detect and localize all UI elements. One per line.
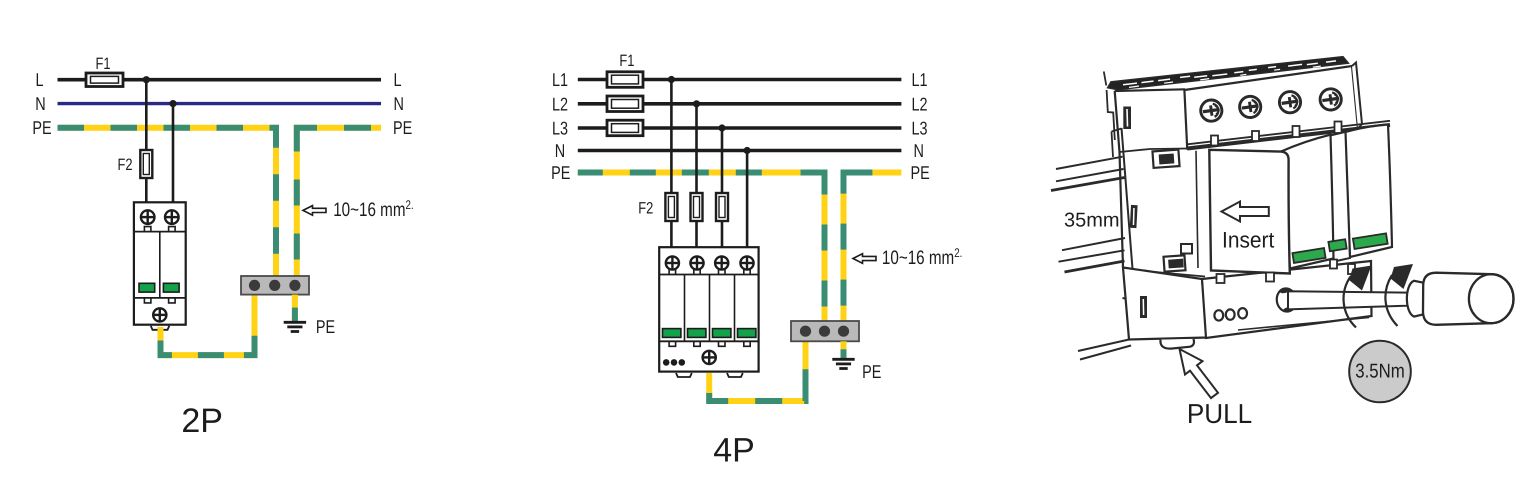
module bottom tab under C (1348, 264, 1355, 274)
DIN rail bottom flange lines (1059, 238, 1126, 272)
module A (1281, 135, 1334, 269)
junction dot on L (143, 76, 150, 83)
SPD 4P terminal screw 1 (666, 256, 679, 269)
svg-text:L2: L2 (912, 93, 928, 114)
terminal screw 1 (isometric) (1199, 99, 1223, 123)
junction dot on L2 (4P) (693, 100, 700, 107)
fuse F1 (2P) (86, 73, 123, 87)
SPD 4P terminal screw 4 (740, 256, 753, 269)
slot A (left face) (1152, 150, 1179, 168)
svg-text:F2: F2 (117, 156, 132, 174)
junction dot on N (4P) (744, 147, 751, 154)
rotation arrow 1 head (1349, 266, 1372, 291)
svg-text:10~16 mm2.: 10~16 mm2. (333, 198, 413, 221)
module top tab 3 (1293, 126, 1300, 137)
svg-text:35mm: 35mm (1064, 210, 1120, 232)
PE wire from SPD 2P to terminal bar (161, 295, 255, 356)
terminal block face (1184, 66, 1358, 149)
module A green indicator (1292, 248, 1325, 263)
svg-text:PE: PE (862, 361, 881, 382)
wire N (2P neutral line) (58, 102, 382, 105)
svg-text:L: L (35, 69, 43, 90)
svg-text:L3: L3 (552, 118, 568, 139)
terminal screw 4 (isometric) (1319, 87, 1343, 111)
module C green indicator (1353, 233, 1388, 249)
fuse on L2 (4P) (607, 96, 643, 112)
svg-text:F1: F1 (95, 55, 110, 73)
screwdriver handle (1423, 273, 1514, 325)
SPD 4P green indicator 3 (713, 329, 731, 338)
svg-text:4P: 4P (713, 432, 755, 470)
module top tab 4 (1335, 122, 1342, 134)
wire N (4P) (578, 149, 902, 153)
junction dot on N (169, 100, 176, 107)
rotation arrow 2 arc (1385, 275, 1397, 326)
fuse F2 (2P) (140, 150, 152, 178)
SPD 4P green indicator 2 (688, 329, 706, 338)
SPD device 4P body (659, 247, 758, 377)
svg-text:N: N (394, 93, 404, 114)
indicator circles ooo (1214, 308, 1247, 321)
screwdriver handle end cap (1469, 274, 1514, 323)
svg-text:L: L (394, 69, 402, 90)
rotation arrow 1 arc (1344, 277, 1356, 328)
mid-left face bottom ledge (1155, 272, 1205, 280)
SPD 2P terminal screw 2 (165, 210, 179, 224)
pull arrow (1180, 349, 1219, 398)
SPD 2P green indicator 2 (163, 283, 179, 292)
right side sliver (1352, 63, 1362, 129)
svg-text:F2: F2 (638, 200, 653, 218)
svg-text:N: N (555, 140, 565, 161)
module Insert (front) (1209, 150, 1290, 274)
cable size arrow (4P) (853, 254, 876, 264)
fuse F2 a (4P) (665, 193, 677, 221)
bottom section left face (1123, 268, 1207, 340)
SPD device 2P body (134, 202, 186, 329)
vertical slot upper left (1123, 107, 1131, 130)
svg-text:10~16 mm2.: 10~16 mm2. (882, 246, 962, 269)
bottom section slot (1140, 296, 1147, 318)
ground symbol (2P) (284, 322, 306, 331)
SPD 4P green indicator 1 (663, 329, 681, 338)
svg-text:PE: PE (316, 316, 335, 337)
device left face left edge (1115, 91, 1123, 268)
module B (narrow, behind) (1328, 132, 1350, 263)
fuse on L3 (4P) (607, 120, 643, 136)
wire PE (4P right portion + riser) (844, 173, 902, 323)
screwdriver neck (1407, 281, 1425, 317)
module B green indicator (1328, 239, 1346, 251)
svg-text:N: N (35, 93, 45, 114)
screwdriver hole (1275, 287, 1297, 313)
svg-text:L2: L2 (552, 93, 568, 114)
SPD 2P bottom screw (153, 308, 166, 321)
SPD 4P terminal screw 3 (715, 256, 728, 269)
SPD 4P green indicator 4 (738, 329, 756, 338)
wire PE (4P left portion + riser) (578, 173, 825, 323)
SPD 2P terminal screw 1 (141, 210, 155, 224)
mid-left face inner vertical (1196, 151, 1198, 268)
tab under Insert left (1217, 274, 1225, 283)
wire PE (2P right portion + riser to PE bar) (297, 128, 381, 277)
wire L2 drop to SPD (4P) (695, 104, 698, 248)
SPD 4P terminal screw 2 (690, 256, 703, 269)
PE wire from SPD 4P to terminal bar (709, 341, 805, 401)
svg-text:PE: PE (911, 162, 930, 183)
bottom section front face (1202, 261, 1372, 338)
svg-text:PULL: PULL (1187, 398, 1252, 429)
ground symbol (4P) (832, 359, 854, 368)
device left face top edge (1115, 89, 1185, 91)
svg-text:L1: L1 (912, 69, 928, 90)
svg-text:N: N (914, 140, 924, 161)
wire L3 drop to SPD (4P) (721, 128, 724, 248)
wire L (2P phase line) (58, 78, 382, 82)
wire L1 (4P) (578, 78, 902, 82)
svg-text:PE: PE (32, 117, 51, 138)
svg-text:PE: PE (393, 117, 412, 138)
DIN rail plate slot (1130, 205, 1138, 228)
fuse F2 b (4P) (691, 193, 703, 221)
wire N drop to SPD (172, 104, 175, 204)
junction dot on L1 (4P) (668, 76, 675, 83)
rotation arrow 2 head (1391, 264, 1414, 289)
DIN rail back plate edge (1122, 128, 1132, 250)
wire L1 drop to SPD (4P) (670, 80, 673, 249)
tab under Insert right (1266, 273, 1274, 282)
module top tab 1 (1211, 136, 1218, 146)
wire L3 (4P) (578, 126, 902, 130)
svg-text:F1: F1 (619, 52, 634, 70)
bottom clip tab (1160, 339, 1194, 349)
cable size arrow (2P) (303, 206, 326, 216)
torque circle 3.5Nm (1349, 341, 1411, 403)
terminal screw 3 (isometric) (1278, 90, 1302, 114)
svg-text:L3: L3 (912, 118, 928, 139)
SPD 2P green indicator 1 (139, 283, 155, 292)
DIN rail top flange lines (1051, 157, 1125, 191)
module top tab 2 (1252, 131, 1259, 141)
PE terminal bar (2P) (241, 276, 309, 295)
DIN rail clip fold below (1123, 250, 1135, 299)
junction dot on L3 (4P) (718, 124, 725, 131)
module C (rightmost) (1346, 125, 1393, 258)
svg-text:2P: 2P (181, 402, 223, 440)
bottom face inner line (1238, 318, 1369, 331)
insert arrow (1222, 202, 1269, 222)
slot C (left face) (1164, 255, 1186, 271)
svg-text:3.5Nm: 3.5Nm (1355, 361, 1404, 383)
module bottom tab under A (1330, 260, 1337, 269)
svg-text:Insert: Insert (1222, 228, 1275, 253)
svg-text:PE: PE (551, 162, 570, 183)
device top slab (1108, 57, 1349, 90)
DIN rail lower front lines (1078, 340, 1131, 360)
fuse F2 c (4P) (716, 193, 728, 221)
module attachment band (1187, 125, 1390, 149)
svg-text:L1: L1 (552, 69, 568, 90)
wire L2 (4P) (578, 102, 902, 106)
SPD 4P bottom screw (703, 351, 716, 364)
SPD 4P status dots (663, 359, 685, 366)
DIN rail plate top corner (1112, 129, 1122, 158)
fuse F1 (4P, on L1) (607, 72, 643, 88)
screwdriver shaft (1288, 291, 1408, 309)
wire N drop to SPD (4P) (746, 151, 749, 249)
wire L drop to SPD (145, 80, 148, 204)
terminal screw 2 (isometric) (1238, 95, 1262, 119)
wire PE (2P left portion + riser to PE bar) (58, 128, 277, 277)
PE wire bar to ground (2P) (292, 295, 298, 321)
device left edge step (1104, 72, 1115, 141)
mid-left face divider (1120, 149, 1188, 153)
PE wire bar to ground (4P) (841, 341, 847, 358)
small square B (left face) (1181, 244, 1192, 254)
PE terminal bar (4P) (791, 321, 859, 341)
